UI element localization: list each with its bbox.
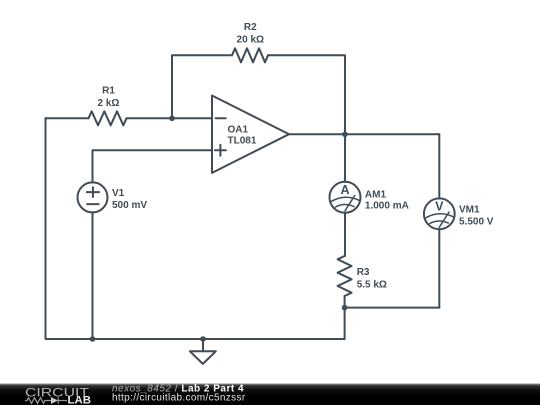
svg-text:http://circuitlab.com/c5nzssr: http://circuitlab.com/c5nzssr xyxy=(112,393,246,404)
svg-text:5.500 V: 5.500 V xyxy=(459,216,494,227)
svg-text:A: A xyxy=(340,183,349,197)
svg-text:AM1: AM1 xyxy=(365,189,387,200)
svg-text:OA1: OA1 xyxy=(228,124,249,135)
svg-text:V: V xyxy=(435,200,444,214)
svg-text:VM1: VM1 xyxy=(459,205,480,216)
svg-text:TL081: TL081 xyxy=(228,136,257,147)
svg-text:V1: V1 xyxy=(112,188,125,199)
svg-text:R1: R1 xyxy=(102,85,115,96)
svg-text:20 kΩ: 20 kΩ xyxy=(237,34,264,45)
svg-text:5.5 kΩ: 5.5 kΩ xyxy=(357,279,387,290)
svg-text:1.000 mA: 1.000 mA xyxy=(365,200,409,211)
svg-text:R3: R3 xyxy=(357,267,370,278)
svg-text:LAB: LAB xyxy=(68,395,92,405)
svg-text:500 mV: 500 mV xyxy=(112,200,147,211)
svg-text:2 kΩ: 2 kΩ xyxy=(98,98,120,109)
svg-text:R2: R2 xyxy=(244,22,257,33)
